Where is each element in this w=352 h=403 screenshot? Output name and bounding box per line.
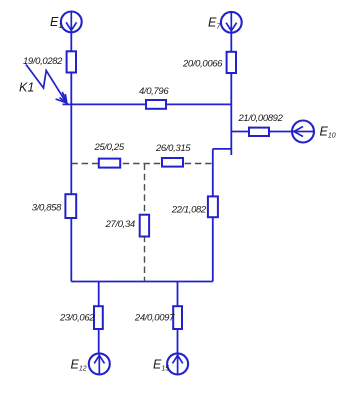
resistor R23 value 23/0,062 <box>94 306 103 329</box>
svg-text:19/0,0282: 19/0,0282 <box>23 56 63 67</box>
svg-text:20/0,0066: 20/0,0066 <box>182 59 223 70</box>
svg-text:3/0,858: 3/0,858 <box>32 203 62 214</box>
svg-text:23/0,062: 23/0,062 <box>59 313 95 324</box>
resistor R19 value 19/0,0282 <box>67 51 76 72</box>
svg-text:21/0,00892: 21/0,00892 <box>238 113 284 124</box>
dashed equivalenting boundary: vertical dashed line <box>144 164 146 281</box>
resistor R22 value 22/1,082 <box>208 196 218 217</box>
resistor R25 value 25/0,25 <box>99 159 120 168</box>
wire: left vertical bus (E1 branch down to bottom bus) <box>70 32 72 282</box>
resistor R20 value 20/0,0066 <box>227 52 236 73</box>
svg-text:26/0,315: 26/0,315 <box>155 143 191 154</box>
wire: lower-right vertical branch through R22 <box>212 149 214 282</box>
wire: right vertical (E7 branch down past bus with stub) <box>230 32 232 155</box>
wire: E15 branch stub <box>177 282 179 354</box>
svg-text:22/1,082: 22/1,082 <box>171 205 207 216</box>
wire: jog connecting right stub to lower-right branch <box>213 148 232 150</box>
source E10 (EMF source, arrow left) <box>292 121 314 143</box>
wire: top horizontal bus (node K1 to right bus) <box>63 103 232 105</box>
fault arrow K1 (lightning bolt pointing to node) <box>26 65 67 103</box>
wire: bottom horizontal bus <box>71 281 213 283</box>
source E1 (EMF source, arrow down) <box>61 12 82 33</box>
resistor R26 value 26/0,315 <box>162 158 183 167</box>
dashed equivalenting boundary: horizontal dashed line <box>71 163 211 165</box>
resistor R4 value 4/0,796 <box>146 100 166 109</box>
source E7 (EMF source, arrow down) <box>221 12 242 33</box>
resistor R21 value 21/0,00892 <box>249 128 269 136</box>
svg-text:24/0,0097: 24/0,0097 <box>134 313 175 324</box>
resistor R3 value 3/0,858 <box>65 194 76 218</box>
svg-text:27/0,34: 27/0,34 <box>105 219 135 230</box>
source E15 (EMF source, arrow up) <box>167 353 188 374</box>
svg-text:K1: K1 <box>19 81 34 95</box>
resistor R27 value 27/0,34 <box>140 215 149 237</box>
svg-text:25/0,25: 25/0,25 <box>94 142 125 153</box>
svg-text:4/0,796: 4/0,796 <box>139 86 169 97</box>
wire: E12 branch stub <box>98 282 100 354</box>
wire: branch to E10 <box>231 131 292 133</box>
resistor R24 value 24/0,0097 <box>173 306 182 329</box>
source E12 (EMF source, arrow up) <box>89 353 110 374</box>
